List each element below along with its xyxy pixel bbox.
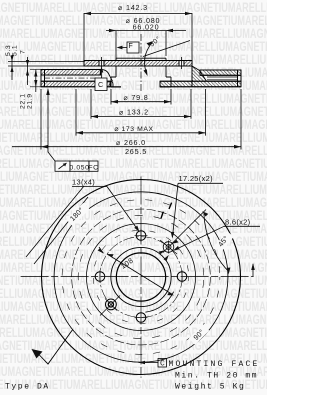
svg-text:F: F	[128, 41, 133, 50]
svg-text:⌀ 173 MAX: ⌀ 173 MAX	[114, 126, 153, 133]
svg-text:21.9: 21.9	[27, 93, 34, 109]
svg-text:ETIUMARELLIUMAGNETIUMARELLIUMA: ETIUMARELLIUMAGNETIUMARELLIUMAGNETIUMARE…	[0, 248, 267, 262]
svg-text:8.6(x2): 8.6(x2)	[225, 217, 251, 226]
svg-text:RELLIUMAGNETIUMARELLIUMAGNETIU: RELLIUMAGNETIUMARELLIUMAGNETIUMARELLIUMA…	[0, 300, 267, 314]
svg-text:Type DA: Type DA	[5, 383, 50, 392]
svg-text:22.1: 22.1	[20, 93, 27, 109]
svg-text:Weight 5 Kg: Weight 5 Kg	[175, 383, 245, 392]
svg-text:Min. TH 20 mm: Min. TH 20 mm	[175, 372, 258, 381]
svg-text:⌀ 266.0: ⌀ 266.0	[116, 138, 146, 147]
svg-text:⌀ 142.3: ⌀ 142.3	[118, 3, 148, 12]
svg-text:66.020: 66.020	[133, 23, 160, 32]
svg-text:TIUMARELLIUMAGNETIUMARELLIUMAG: TIUMARELLIUMAGNETIUMARELLIUMAGNETIUMAREL…	[0, 326, 267, 340]
svg-text:NETIUMARELLIUMAGNETIUMARELLIUM: NETIUMARELLIUMAGNETIUMARELLIUMAGNETIUMAR…	[0, 196, 267, 210]
svg-text:MARELLIUMAGNETIUMARELLIUMAGNET: MARELLIUMAGNETIUMARELLIUMAGNETIUMARELLIU…	[0, 157, 267, 171]
svg-text:MARELLIUMAGNETIUMARELLIUMAGNET: MARELLIUMAGNETIUMARELLIUMAGNETIUMARELLIU…	[0, 170, 267, 184]
svg-text:17.25(x2): 17.25(x2)	[179, 174, 214, 183]
svg-text:⌀ 133.2: ⌀ 133.2	[119, 107, 149, 116]
svg-text:C: C	[98, 80, 104, 89]
svg-text:MOUNTING FACE: MOUNTING FACE	[169, 360, 260, 369]
svg-text:265.5: 265.5	[125, 147, 147, 156]
svg-text:5.1: 5.1	[12, 45, 19, 56]
svg-text:FC: FC	[88, 164, 98, 171]
svg-text:C: C	[160, 360, 165, 369]
svg-text:7: 7	[20, 50, 27, 54]
svg-text:13(x4): 13(x4)	[72, 178, 95, 187]
svg-text:⌀ 79.8: ⌀ 79.8	[123, 93, 148, 102]
svg-text:NETIUMARELLIUMAGNETIUMARELLIUM: NETIUMARELLIUMAGNETIUMARELLIUMAGNETIUMAR…	[0, 183, 267, 197]
svg-text:0.050: 0.050	[69, 164, 89, 171]
